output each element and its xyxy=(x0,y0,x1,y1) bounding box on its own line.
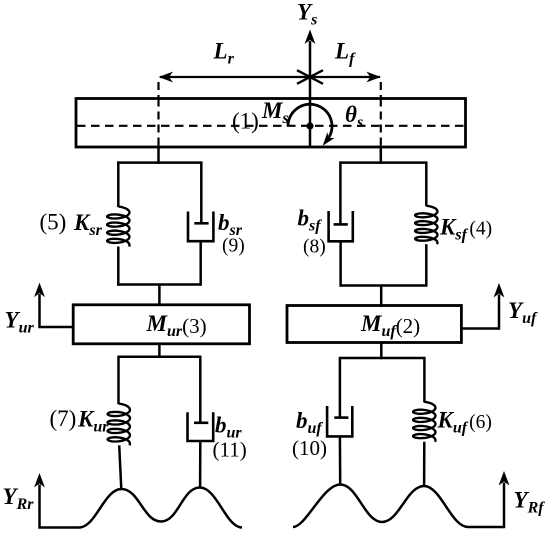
wire front tire damper rod top xyxy=(339,357,342,418)
svg-text:θs: θs xyxy=(345,102,363,131)
wire rear spring top xyxy=(117,161,120,207)
svg-text:Muf(2): Muf(2) xyxy=(360,311,420,340)
svg-text:Mur(3): Mur(3) xyxy=(146,311,207,340)
wire front tire spring bottom xyxy=(423,442,426,487)
wire rear spring bottom xyxy=(117,247,120,286)
pivot dot node xyxy=(306,122,313,129)
spring Kuf xyxy=(413,402,435,442)
svg-text:Kuf(6): Kuf(6) xyxy=(437,408,492,437)
dashed rear axle line in beam xyxy=(157,99,159,148)
wire front spring bottom xyxy=(425,244,428,287)
damper bsr cup xyxy=(188,212,213,242)
svg-text:bsf: bsf xyxy=(298,206,323,235)
pitch rotation arc theta_s xyxy=(288,104,332,140)
unsprung mass box Muf xyxy=(287,306,461,343)
rear frame bottom bar xyxy=(117,283,201,286)
spring Kur xyxy=(108,404,130,446)
wire beam to rear frame xyxy=(157,147,160,164)
wire rear tire spring top xyxy=(117,356,120,405)
svg-text:YRr: YRr xyxy=(3,484,35,513)
wire Muf box to front lower frame xyxy=(380,343,383,360)
svg-text:Lr: Lr xyxy=(213,39,235,68)
rear lower frame top bar xyxy=(118,356,201,359)
beam dashed centerline xyxy=(77,125,464,127)
front frame top bar xyxy=(340,161,427,164)
svg-text:(7): (7) xyxy=(50,406,77,431)
svg-text:Ms: Ms xyxy=(261,98,289,127)
arrow YRf xyxy=(499,471,510,528)
svg-text:Yuf: Yuf xyxy=(508,298,538,327)
wire rear frame to Mur box xyxy=(158,285,161,307)
svg-text:Lf: Lf xyxy=(334,39,356,68)
unsprung mass box Mur xyxy=(73,305,249,344)
dashed tick above beam rear xyxy=(157,82,159,98)
svg-text:bsr: bsr xyxy=(218,210,243,239)
svg-text:buf: buf xyxy=(296,408,323,437)
wire front damper rod bottom xyxy=(339,241,342,286)
damper buf piston xyxy=(334,416,348,419)
svg-text:(8): (8) xyxy=(303,237,326,258)
dashed front axle line in beam xyxy=(380,99,382,148)
damper bsf piston xyxy=(334,223,348,226)
arrow YRr xyxy=(34,473,45,529)
wire front frame to Muf box xyxy=(380,286,383,308)
road profile front xyxy=(293,485,504,528)
damper bsr piston xyxy=(194,222,208,225)
svg-text:(1): (1) xyxy=(232,109,259,134)
arrow Yuf xyxy=(461,283,504,330)
damper bur cup xyxy=(188,412,214,441)
svg-text:(10): (10) xyxy=(292,436,327,460)
dimension line Lr/Lf xyxy=(159,70,381,84)
wire front spring top xyxy=(425,161,428,206)
front frame bottom bar xyxy=(340,284,427,287)
wire beam to front frame xyxy=(380,147,383,164)
wire Mur box to rear lower frame xyxy=(158,344,161,358)
svg-text:Ksf(4): Ksf(4) xyxy=(439,215,492,244)
wire front tire damper rod bottom xyxy=(339,436,342,485)
wire front tire spring top xyxy=(423,357,426,403)
sprung mass beam Ms (1) xyxy=(76,99,466,148)
wire rear tire spring bottom xyxy=(119,445,121,489)
arrow Yur xyxy=(34,283,73,329)
dashed tick above beam front xyxy=(380,82,382,98)
spring Ksr xyxy=(107,207,129,247)
svg-text:(11): (11) xyxy=(213,438,247,462)
damper bur piston xyxy=(194,421,208,424)
rear frame top bar xyxy=(117,161,201,164)
svg-text:YRf: YRf xyxy=(514,488,546,517)
damper bsf cup xyxy=(329,211,353,241)
wire rear tire damper rod top xyxy=(199,356,202,423)
svg-text:(5): (5) xyxy=(40,210,67,235)
wire front damper rod top xyxy=(339,161,342,224)
svg-text:Yur: Yur xyxy=(5,308,35,337)
wire rear tire damper rod bottom xyxy=(199,441,202,488)
damper buf cup xyxy=(327,406,352,436)
wire rear damper rod top xyxy=(200,161,203,223)
wire rear damper rod bottom xyxy=(199,241,202,286)
svg-text:Kur: Kur xyxy=(77,407,109,436)
svg-text:Ys: Ys xyxy=(297,0,317,29)
front lower frame top bar xyxy=(340,357,425,360)
spring Ksf xyxy=(415,206,437,245)
road profile rear xyxy=(40,488,243,528)
svg-text:Ksr: Ksr xyxy=(73,210,103,239)
arrow Ys (heave axis) xyxy=(305,30,316,148)
svg-text:(9): (9) xyxy=(222,236,245,257)
